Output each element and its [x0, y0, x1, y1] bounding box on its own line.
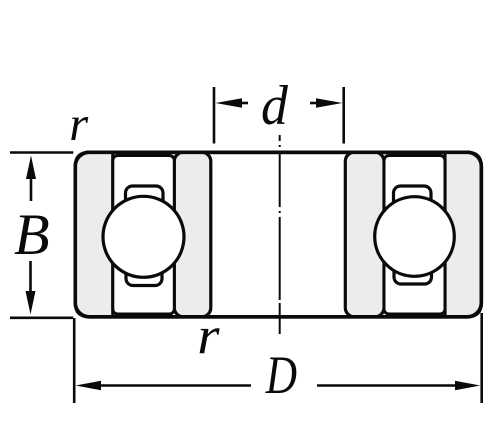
B arrow down	[26, 261, 36, 315]
D extension line left	[73, 318, 76, 403]
ball left	[103, 196, 184, 277]
outer ring left section	[75, 152, 113, 316]
svg-text:r: r	[69, 97, 89, 151]
d arrow left	[216, 98, 249, 108]
cage tab lower left	[126, 261, 162, 286]
cage tab upper left	[126, 186, 164, 212]
d extension line left	[213, 87, 216, 144]
bearing outline redraw	[75, 152, 481, 316]
B extension line top	[10, 151, 73, 154]
svg-text:r: r	[197, 306, 220, 365]
svg-text:D: D	[265, 344, 297, 405]
right raceway channel	[384, 156, 445, 315]
D dimension arrow right	[317, 381, 480, 390]
bearing outer outline	[75, 152, 481, 316]
centerline axis	[279, 135, 281, 335]
ball right	[375, 197, 455, 277]
cage tab upper right	[394, 186, 432, 212]
svg-text:B: B	[14, 202, 50, 267]
D dimension arrow left	[76, 381, 252, 390]
inner ring left section	[174, 152, 211, 316]
left raceway channel	[113, 156, 175, 315]
D extension line right	[480, 313, 483, 403]
B arrow up	[26, 156, 36, 202]
d extension line right	[342, 87, 345, 144]
svg-text:d: d	[261, 74, 288, 137]
B extension line bottom	[10, 316, 73, 319]
cage tab lower right	[394, 260, 432, 285]
inner ring right section	[345, 152, 384, 316]
outer ring right section	[445, 152, 481, 316]
d arrow right	[310, 98, 342, 108]
